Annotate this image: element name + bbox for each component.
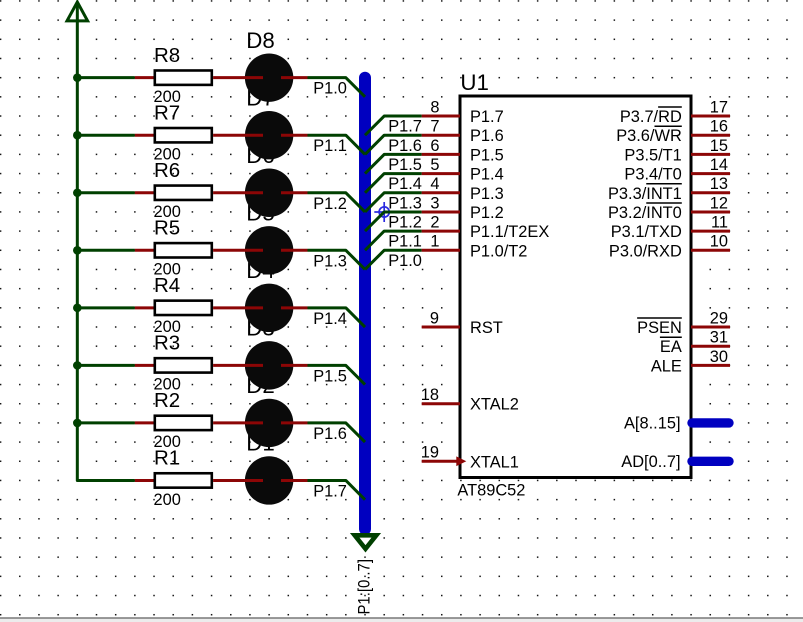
wire R1 to D1 anode bbox=[213, 479, 263, 482]
pin 31 U1 right (EA) bbox=[691, 345, 730, 348]
wire bus to U1 pin 8 bbox=[365, 116, 422, 135]
svg-text:P1.1: P1.1 bbox=[388, 233, 422, 251]
resistor R4 bbox=[135, 274, 212, 336]
wire vertical power rail bbox=[77, 20, 135, 480]
svg-text:16: 16 bbox=[710, 118, 728, 136]
svg-text:7: 7 bbox=[430, 118, 439, 136]
svg-text:P1.0/T2: P1.0/T2 bbox=[470, 242, 527, 260]
junction node on power rail row 4 bbox=[73, 304, 82, 313]
svg-text:AT89C52: AT89C52 bbox=[457, 481, 525, 499]
svg-text:5: 5 bbox=[430, 156, 439, 174]
svg-text:RST: RST bbox=[470, 319, 503, 337]
svg-text:15: 15 bbox=[710, 137, 728, 155]
svg-text:8: 8 bbox=[430, 98, 439, 116]
svg-text:P1.3: P1.3 bbox=[313, 252, 347, 270]
svg-text:12: 12 bbox=[710, 194, 728, 212]
svg-text:R7: R7 bbox=[154, 101, 180, 124]
svg-text:P1.6: P1.6 bbox=[388, 137, 422, 155]
svg-text:P1.2: P1.2 bbox=[313, 195, 347, 213]
wire rail to R8 bbox=[77, 76, 135, 79]
resistor R5 bbox=[135, 216, 212, 278]
svg-text:P1.7: P1.7 bbox=[313, 482, 347, 500]
junction node on power rail row 5 bbox=[73, 246, 82, 255]
svg-text:30: 30 bbox=[710, 348, 728, 366]
svg-text:13: 13 bbox=[710, 175, 728, 193]
wire D8 to bus P1 bbox=[307, 78, 365, 97]
svg-text:P1:[0..7]: P1:[0..7] bbox=[356, 559, 374, 615]
svg-text:200: 200 bbox=[154, 491, 181, 509]
power symbol VCC arrow bbox=[67, 2, 88, 21]
wire R2 to D2 anode bbox=[213, 421, 263, 424]
pin 13 U1 right bbox=[691, 191, 730, 194]
wire D1 to bus P1 bbox=[307, 480, 365, 499]
svg-text:XTAL1: XTAL1 bbox=[470, 453, 519, 471]
svg-text:P3.7/RD: P3.7/RD bbox=[620, 108, 682, 126]
svg-text:P1.0: P1.0 bbox=[388, 252, 422, 270]
wire R6 to D6 anode bbox=[213, 191, 263, 194]
LED D1 bbox=[245, 456, 293, 504]
wire R4 to D4 anode bbox=[213, 306, 263, 309]
wire D5 to bus P1 bbox=[307, 250, 365, 269]
LED D3 bbox=[245, 341, 293, 389]
svg-text:R2: R2 bbox=[154, 389, 180, 412]
wire D4 cathode bbox=[281, 306, 307, 309]
pin 6 U1 left bbox=[422, 153, 460, 156]
clock arrow XTAL1 bbox=[456, 456, 466, 466]
resistor R2 bbox=[135, 389, 212, 451]
svg-text:P1.4: P1.4 bbox=[313, 310, 347, 328]
wire D3 cathode bbox=[281, 364, 307, 367]
wire D5 cathode bbox=[281, 249, 307, 252]
svg-text:P1.6: P1.6 bbox=[470, 127, 504, 145]
svg-text:AD[0..7]: AD[0..7] bbox=[621, 453, 680, 471]
pin 29 U1 right (PSEN) bbox=[691, 326, 730, 329]
svg-text:R4: R4 bbox=[154, 274, 180, 297]
wire D1 cathode bbox=[281, 479, 307, 482]
wire D7 to bus P1 bbox=[307, 135, 365, 154]
wire bus to U1 pin 3 bbox=[365, 212, 422, 231]
svg-text:XTAL2: XTAL2 bbox=[470, 396, 519, 414]
wire rail to R7 bbox=[77, 134, 135, 137]
wire bus to U1 pin 5 bbox=[365, 174, 422, 193]
svg-text:P1.0: P1.0 bbox=[313, 80, 347, 98]
junction node on power rail row 3 bbox=[73, 361, 82, 370]
svg-text:14: 14 bbox=[710, 156, 728, 174]
overline RD bbox=[658, 106, 682, 108]
svg-text:A[8..15]: A[8..15] bbox=[624, 414, 681, 432]
svg-text:4: 4 bbox=[430, 175, 439, 193]
wire R5 to D5 anode bbox=[213, 249, 263, 252]
svg-text:1: 1 bbox=[430, 233, 439, 251]
svg-text:P3.6/WR: P3.6/WR bbox=[616, 127, 682, 145]
svg-text:P1.4: P1.4 bbox=[388, 175, 422, 193]
svg-text:EA: EA bbox=[660, 338, 682, 356]
svg-text:P1.2: P1.2 bbox=[388, 214, 422, 232]
svg-text:P3.2/INT0: P3.2/INT0 bbox=[608, 204, 682, 222]
svg-text:P1.1/T2EX: P1.1/T2EX bbox=[470, 223, 549, 241]
svg-text:P1.5: P1.5 bbox=[313, 367, 347, 385]
svg-text:29: 29 bbox=[710, 309, 728, 327]
svg-text:P1.3: P1.3 bbox=[470, 185, 504, 203]
svg-text:9: 9 bbox=[430, 309, 439, 327]
junction node on power rail row 6 bbox=[73, 188, 82, 197]
LED D8 bbox=[245, 53, 293, 101]
LED D6 bbox=[245, 169, 293, 217]
overline INT0 bbox=[646, 202, 682, 204]
svg-text:R6: R6 bbox=[154, 159, 180, 182]
pin 5 U1 left bbox=[422, 172, 460, 175]
LED D2 bbox=[245, 399, 293, 447]
svg-text:P3.3/INT1: P3.3/INT1 bbox=[608, 185, 682, 203]
LED D4 bbox=[245, 284, 293, 332]
pin 14 U1 right bbox=[691, 172, 730, 175]
pin 10 U1 right bbox=[691, 249, 730, 252]
svg-text:P1.6: P1.6 bbox=[313, 425, 347, 443]
bottom window edge bbox=[0, 618, 803, 622]
pin 8 U1 left bbox=[422, 115, 460, 118]
pin 17 U1 right bbox=[691, 115, 730, 118]
bus pin AD[0..7] bbox=[692, 457, 729, 466]
wire D8 cathode bbox=[281, 76, 307, 79]
svg-text:P3.1/TXD: P3.1/TXD bbox=[611, 223, 682, 241]
wire R7 to D7 anode bbox=[213, 134, 263, 137]
pin 19 U1 left (XTAL1) bbox=[422, 460, 460, 463]
junction node on power rail row 2 bbox=[73, 419, 82, 428]
svg-text:P1.5: P1.5 bbox=[388, 156, 422, 174]
wire rail to R4 bbox=[77, 306, 135, 309]
pin 11 U1 right bbox=[691, 230, 730, 233]
wire R3 to D3 anode bbox=[213, 364, 263, 367]
wire bus to U1 pin 4 bbox=[365, 193, 422, 212]
svg-text:PSEN: PSEN bbox=[637, 319, 682, 337]
svg-text:P1.4: P1.4 bbox=[470, 166, 504, 184]
svg-text:P1.5: P1.5 bbox=[470, 146, 504, 164]
resistor R8 bbox=[135, 44, 212, 106]
svg-text:P3.4/T0: P3.4/T0 bbox=[624, 166, 681, 184]
overline EA bbox=[660, 336, 682, 338]
pin 4 U1 left bbox=[422, 191, 460, 194]
overline WR bbox=[654, 125, 681, 127]
resistor R3 bbox=[135, 331, 212, 393]
pin 16 U1 right bbox=[691, 134, 730, 137]
svg-text:P3.5/T1: P3.5/T1 bbox=[624, 146, 681, 164]
svg-text:31: 31 bbox=[710, 329, 728, 347]
svg-text:6: 6 bbox=[430, 137, 439, 155]
LED D7 bbox=[245, 111, 293, 159]
pin 7 U1 left bbox=[422, 134, 460, 137]
svg-text:P1.3: P1.3 bbox=[388, 194, 422, 212]
svg-text:2: 2 bbox=[430, 214, 439, 232]
pin 2 U1 left bbox=[422, 230, 460, 233]
svg-text:U1: U1 bbox=[460, 70, 489, 95]
LED D5 bbox=[245, 226, 293, 274]
svg-text:P3.0/RXD: P3.0/RXD bbox=[609, 242, 682, 260]
svg-text:R3: R3 bbox=[154, 331, 180, 354]
wire rail to R5 bbox=[77, 249, 135, 252]
bus P1 vertical bbox=[359, 78, 371, 529]
pin 12 U1 right bbox=[691, 210, 730, 213]
wire rail to R6 bbox=[77, 191, 135, 194]
pin 9 U1 left (RST) bbox=[422, 326, 460, 329]
pin 15 U1 right bbox=[691, 153, 730, 156]
svg-text:R5: R5 bbox=[154, 216, 180, 239]
svg-text:10: 10 bbox=[710, 233, 728, 251]
svg-text:R8: R8 bbox=[154, 44, 180, 67]
wire D3 to bus P1 bbox=[307, 365, 365, 384]
wire rail to R2 bbox=[77, 421, 135, 424]
wire R8 to D8 anode bbox=[213, 76, 263, 79]
junction node on power rail row 7 bbox=[73, 131, 82, 140]
svg-text:P1.2: P1.2 bbox=[470, 204, 504, 222]
svg-text:19: 19 bbox=[421, 444, 439, 462]
resistor R7 bbox=[135, 101, 212, 163]
wire bus to U1 pin 6 bbox=[365, 154, 422, 173]
svg-text:D8: D8 bbox=[246, 28, 275, 53]
svg-text:R1: R1 bbox=[154, 447, 180, 470]
svg-text:3: 3 bbox=[430, 194, 439, 212]
wire D6 to bus P1 bbox=[307, 193, 365, 212]
resistor R1 bbox=[135, 447, 212, 509]
svg-text:P1.7: P1.7 bbox=[388, 118, 422, 136]
pin 3 U1 left bbox=[422, 210, 460, 213]
wire D2 cathode bbox=[281, 421, 307, 424]
wire D2 to bus P1 bbox=[307, 423, 365, 442]
overline PSEN bbox=[637, 317, 682, 319]
junction node on power rail row 8 bbox=[73, 73, 82, 82]
wire D4 to bus P1 bbox=[307, 308, 365, 327]
svg-text:P1.7: P1.7 bbox=[470, 108, 504, 126]
svg-text:11: 11 bbox=[711, 214, 728, 232]
wire bus to U1 pin 2 bbox=[365, 231, 422, 250]
svg-text:17: 17 bbox=[710, 98, 728, 116]
svg-text:18: 18 bbox=[421, 386, 439, 404]
overline INT1 bbox=[646, 183, 682, 185]
bus terminator arrow bbox=[355, 535, 377, 549]
svg-text:P1.1: P1.1 bbox=[313, 137, 347, 155]
svg-text:ALE: ALE bbox=[651, 357, 682, 375]
resistor R6 bbox=[135, 159, 212, 221]
pin 30 U1 right (ALE) bbox=[691, 364, 730, 367]
origin marker crosshair bbox=[374, 202, 392, 222]
wire D7 cathode bbox=[281, 134, 307, 137]
wire rail to R3 bbox=[77, 364, 135, 367]
bus pin A[8..15] bbox=[692, 418, 729, 427]
wire bus to U1 pin 7 bbox=[365, 135, 422, 154]
pin 1 U1 left bbox=[422, 249, 460, 252]
wire D6 cathode bbox=[281, 191, 307, 194]
op-amp U1 body (AT89C52 MCU) bbox=[460, 96, 691, 478]
wire bus to U1 pin 1 bbox=[365, 250, 422, 269]
pin 18 U1 left (XTAL2) bbox=[422, 402, 460, 405]
